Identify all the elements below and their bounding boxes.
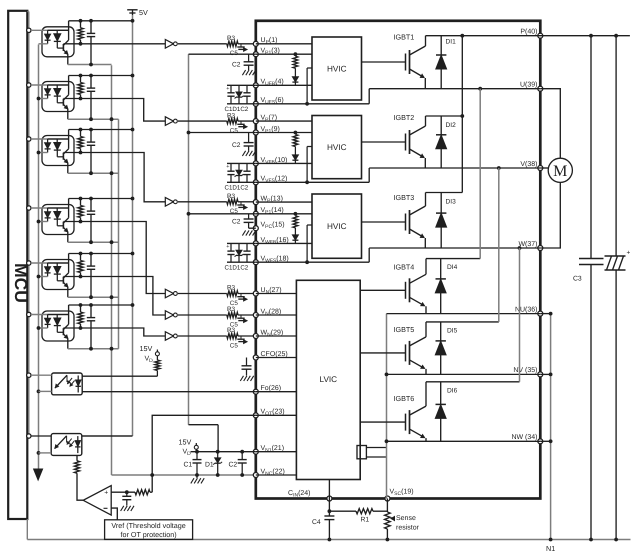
svg-text:C4: C4 <box>312 519 321 526</box>
optocoupler PC7 <box>52 373 83 395</box>
wire P input line <box>256 120 312 122</box>
ground <box>191 478 194 483</box>
wire LVIC pin line <box>256 293 297 295</box>
pin VNC(22) <box>253 473 258 478</box>
capacitor C2 bootstrap <box>246 243 248 251</box>
capacitor decouple opto2 <box>90 76 92 89</box>
pin VP1(9) <box>253 130 258 135</box>
svg-text:W(37): W(37) <box>518 240 537 248</box>
wire MCU aux vertical <box>27 11 29 13</box>
resistor sense shunt <box>386 499 388 513</box>
resistor comparator input <box>135 490 150 495</box>
pin VP(7) <box>253 119 258 124</box>
pin VOT(23) <box>253 413 258 418</box>
pin NV (35) <box>538 372 543 377</box>
wire VFB line <box>256 84 312 86</box>
5V rail vertical <box>132 15 134 436</box>
svg-text:5V: 5V <box>139 8 148 17</box>
supply 15V VD (control) <box>195 443 197 445</box>
wire opto2 emitter return <box>68 118 119 120</box>
resistor pull-up opto2 <box>80 76 82 83</box>
wire gate line <box>362 61 406 63</box>
resistor pull-up opto5 <box>80 254 82 261</box>
capacitor decouple opto3 <box>90 130 92 143</box>
wire gate line <box>362 141 406 143</box>
optocoupler PC3 <box>42 136 74 166</box>
resistor R3 <box>178 314 227 316</box>
pin VP1(3) <box>253 52 258 57</box>
wire VP1 line <box>256 132 312 134</box>
wire W line <box>369 247 540 249</box>
svg-text:D1: D1 <box>205 462 214 469</box>
svg-text:U(39): U(39) <box>520 81 538 89</box>
capacitor C5 <box>240 294 242 297</box>
wire N line <box>387 373 541 375</box>
pin VWFS(18) <box>253 260 258 265</box>
svg-text:IGBT3: IGBT3 <box>394 193 415 202</box>
pin VWFB(16) <box>253 241 258 246</box>
svg-text:R3: R3 <box>227 112 236 119</box>
svg-text:R1: R1 <box>361 517 370 524</box>
optocoupler PC3 input circle <box>27 137 31 141</box>
resistor pull-up opto1 <box>80 21 82 28</box>
wire LVIC pin line <box>256 314 297 316</box>
svg-text:15V: 15V <box>179 438 192 447</box>
resistor opto8 output <box>76 455 78 461</box>
capacitor decouple opto1 <box>90 21 92 34</box>
svg-text:resistor: resistor <box>396 524 420 532</box>
wire CIN riser <box>328 480 330 499</box>
svg-text:IGBT5: IGBT5 <box>394 325 415 334</box>
wire VFS line <box>256 181 369 183</box>
wire comparator plus input <box>111 491 135 493</box>
zener D1 bootstrap <box>238 85 240 92</box>
wire LVIC pin line <box>256 414 297 416</box>
wire VFS line <box>256 261 369 263</box>
optocoupler PC2 <box>42 82 74 112</box>
svg-text:for OT protection): for OT protection) <box>120 530 176 539</box>
capacitor C2 bootstrap <box>246 85 248 93</box>
buffer U4 <box>165 289 173 298</box>
wire comparator minus input <box>111 508 117 520</box>
pin P(40) <box>538 33 543 38</box>
capacitor C1 bootstrap <box>230 85 232 93</box>
buffer U5 <box>165 311 173 320</box>
ground <box>196 475 198 478</box>
buffer U3 <box>165 198 173 207</box>
optocoupler PC1 input circle <box>27 28 31 32</box>
svg-text:CFO(25): CFO(25) <box>261 350 288 358</box>
wire LVIC pin line <box>256 451 297 453</box>
resistor pull-up opto3 <box>80 130 82 137</box>
svg-text:V(38): V(38) <box>520 160 537 168</box>
capacitor CFO timing <box>246 358 248 366</box>
resistor Fo pull-up <box>156 356 158 360</box>
wire NU/NV/NW common vertical <box>550 314 552 540</box>
wire P input line <box>256 201 312 203</box>
wire opto4 5V rail <box>69 198 133 200</box>
svg-text:HVIC: HVIC <box>327 143 347 152</box>
wire phase feed vertical <box>498 168 500 322</box>
svg-text:DI2: DI2 <box>446 122 457 129</box>
wire LVIC sense loop <box>357 446 366 459</box>
svg-text:C2: C2 <box>229 462 238 469</box>
comparator <box>83 486 111 515</box>
wire VP1 rail taps <box>189 53 256 55</box>
svg-text:+: + <box>226 86 229 92</box>
capacitor C3 bus film <box>590 36 592 259</box>
wire P input line <box>256 43 312 45</box>
svg-text:+: + <box>104 489 108 496</box>
wire VFS line <box>256 103 369 105</box>
capacitor C1 bootstrap <box>230 163 232 171</box>
resistor pull-up opto4 <box>80 199 82 206</box>
capacitor decouple opto4 <box>90 199 92 212</box>
wire opto7 collector (15V pull-up) <box>82 375 157 377</box>
optocoupler PC5 <box>42 260 74 290</box>
zener D1 bootstrap <box>238 243 240 250</box>
wire opto6 emitter return <box>68 348 119 350</box>
svg-text:DI5: DI5 <box>447 327 458 334</box>
wire opto3 5V rail <box>69 129 133 131</box>
resistor + diode bootstrap <box>294 212 298 216</box>
wire LVIC pin line <box>256 391 297 393</box>
ground <box>240 376 243 381</box>
wire bootstrap rails <box>227 242 256 244</box>
wire opto3 emitter return <box>68 172 119 174</box>
wire P line <box>426 35 630 37</box>
svg-text:C1: C1 <box>184 462 193 469</box>
capacitor comparator filter <box>126 492 128 496</box>
wire V_OT to comparator <box>152 415 256 492</box>
capacitor C5 <box>240 202 242 205</box>
wire phase feed vertical <box>479 89 481 259</box>
capacitor C5 <box>240 121 242 124</box>
node N1 bottom rail <box>27 539 630 541</box>
wire V line <box>369 167 540 169</box>
pin NU(36) <box>538 311 543 316</box>
wire opto output jog <box>81 328 166 336</box>
svg-text:R3: R3 <box>227 35 236 42</box>
pin VUFB(4) <box>253 83 258 88</box>
capacitor C3 bus electrolytic <box>615 36 617 256</box>
resistor R3 <box>178 43 227 45</box>
svg-text:DI3: DI3 <box>446 199 457 206</box>
wire V to motor <box>540 167 548 169</box>
optocoupler PC4 <box>42 205 74 235</box>
optocoupler PC6 <box>42 311 74 341</box>
capacitor C5 <box>240 336 242 339</box>
resistor pull-up opto6 <box>80 305 82 312</box>
pin VPC(15) <box>253 226 258 231</box>
wire VP1 line <box>256 53 312 55</box>
svg-text:DI1: DI1 <box>446 39 457 46</box>
pin VUFS(6) <box>253 101 258 106</box>
svg-text:IGBT4: IGBT4 <box>394 262 415 271</box>
capacitor decouple opto6 <box>90 305 92 318</box>
pin W(37) <box>538 246 543 251</box>
zener D1 bootstrap <box>238 163 240 170</box>
supply 15V VD (Fo pull-up) <box>156 350 158 352</box>
svg-text:M: M <box>553 163 567 180</box>
pin CIN(24) <box>327 496 332 501</box>
capacitor C2 <box>241 452 243 460</box>
ground return vertical B <box>118 119 120 349</box>
wire opto6 output <box>63 327 80 329</box>
optocoupler PC2 input circle <box>27 83 31 87</box>
wire opto1 5V rail <box>69 20 133 22</box>
IC HVIC driver (IGBT2 section) <box>312 116 362 179</box>
V_P1 15V rail vertical <box>188 54 190 425</box>
pin CFO(25) <box>253 355 258 360</box>
ground <box>121 506 124 511</box>
pin U(39) <box>538 86 543 91</box>
wire N line <box>387 313 541 315</box>
pin VSC(19) <box>385 496 390 501</box>
5V supply symbol <box>132 10 134 16</box>
capacitor C2 control supply <box>248 54 250 62</box>
arrow down (common return) <box>34 469 43 480</box>
wire W to motor <box>540 182 560 248</box>
wire HVIC aux <box>307 224 312 226</box>
svg-text:NV (35): NV (35) <box>513 366 537 374</box>
svg-text:LVIC: LVIC <box>320 375 338 384</box>
optocoupler PC6 input circle <box>27 312 31 316</box>
optocoupler PC7 input circle <box>27 373 31 377</box>
wire LVIC pin line <box>256 335 297 337</box>
wire HVIC aux <box>307 146 312 148</box>
wire opto1 emitter return <box>68 64 112 66</box>
wire opto1 output <box>63 43 80 45</box>
wire P feed vertical <box>461 36 463 193</box>
capacitor C2 control supply <box>248 133 250 143</box>
svg-text:IGBT6: IGBT6 <box>394 394 415 403</box>
capacitor C4 <box>328 499 330 517</box>
wire opto3 output <box>63 152 80 154</box>
svg-text:HVIC: HVIC <box>327 65 347 74</box>
svg-text:C5: C5 <box>230 342 239 349</box>
wire LVIC pin line <box>256 474 297 476</box>
pin V(38) <box>538 166 543 171</box>
svg-text:R3: R3 <box>227 327 236 334</box>
buffer U6 <box>165 332 173 341</box>
pin VN1(21) <box>253 449 258 454</box>
svg-text:C2: C2 <box>232 61 241 68</box>
wire opto4 output <box>63 221 80 223</box>
resistor R3 <box>178 335 227 337</box>
svg-text:DI4: DI4 <box>447 264 458 271</box>
svg-text:C1D1C2: C1D1C2 <box>225 264 249 271</box>
svg-text:C2: C2 <box>232 218 241 225</box>
capacitor C5 <box>240 315 242 318</box>
wire gate line <box>362 221 406 223</box>
wire VFB line <box>256 242 312 244</box>
zener D1 <box>217 452 219 458</box>
resistor R1 <box>329 510 356 512</box>
wire phase feed vertical <box>519 248 521 382</box>
svg-text:DI6: DI6 <box>447 387 458 394</box>
IC HVIC driver (IGBT1 section) <box>312 37 362 100</box>
ground <box>242 230 245 235</box>
wire VN1 line <box>191 451 256 453</box>
svg-text:+: + <box>627 250 631 257</box>
capacitor decouple opto5 <box>90 254 92 267</box>
motor M <box>548 158 572 182</box>
pin VP1(14) <box>253 211 258 216</box>
wire opto5 output <box>63 276 80 278</box>
capacitor C2 bootstrap <box>246 163 248 171</box>
wire opto5 5V rail <box>69 253 133 255</box>
Vref box <box>105 520 193 540</box>
svg-text:P(40): P(40) <box>520 28 537 36</box>
svg-text:R3: R3 <box>227 285 236 292</box>
svg-text:C5: C5 <box>230 127 239 134</box>
ground return vertical A <box>111 65 113 475</box>
wire opto output jog <box>81 99 166 122</box>
optocoupler PC1 <box>42 27 74 57</box>
wire U line <box>369 88 540 90</box>
pin WP(13) <box>253 200 258 205</box>
wire opto1 output to buffer <box>81 43 166 45</box>
wire gate line <box>360 289 405 291</box>
svg-text:+: + <box>226 164 229 170</box>
wire VP1 line <box>256 213 312 215</box>
svg-text:C3: C3 <box>573 276 582 283</box>
svg-text:C1D1C2: C1D1C2 <box>225 106 249 113</box>
wire bootstrap rails <box>227 84 256 86</box>
svg-text:R3: R3 <box>227 306 236 313</box>
wire gate line <box>360 352 405 354</box>
pin UP(1) <box>253 41 258 46</box>
ground line to V_NC <box>112 474 256 476</box>
svg-text:Sense: Sense <box>396 515 416 522</box>
svg-text:IGBT2: IGBT2 <box>394 113 415 122</box>
wire LED return vertical <box>38 45 40 470</box>
ground <box>242 151 245 156</box>
wire opto4 emitter return <box>68 241 119 243</box>
wire bootstrap rails <box>227 162 256 164</box>
IC LVIC driver <box>296 280 360 479</box>
capacitor C2 control supply (W section, to VPC) <box>248 214 250 219</box>
pin UN(27) <box>253 291 258 296</box>
pin Fo(26) <box>253 389 258 394</box>
wire IGBT3 collector rail <box>426 192 463 194</box>
svg-text:Fo(26): Fo(26) <box>261 384 282 392</box>
wire sense vertical <box>386 314 388 499</box>
pin VN(28) <box>253 313 258 318</box>
svg-text:C2: C2 <box>232 142 241 149</box>
IC HVIC driver (IGBT3 section) <box>312 194 362 258</box>
wire opto output jog <box>81 277 166 316</box>
resistor R3 <box>178 293 227 295</box>
pin VVFS(12) <box>253 180 258 185</box>
wire Fo line <box>82 391 256 393</box>
wire opto output jog <box>81 153 166 202</box>
wire N line <box>387 440 541 442</box>
buffer U2 <box>165 117 173 126</box>
wire LVIC pin line <box>256 357 297 359</box>
svg-text:Vref (Threshold voltage: Vref (Threshold voltage <box>111 521 185 530</box>
optocoupler PC5 input circle <box>27 261 31 265</box>
pin VVFB(10) <box>253 161 258 166</box>
MCU block <box>8 11 27 519</box>
resistor + diode bootstrap <box>294 131 298 135</box>
svg-text:N1: N1 <box>546 544 555 553</box>
wire opto6 5V rail <box>69 304 133 306</box>
svg-text:C1D1C2: C1D1C2 <box>225 185 249 192</box>
svg-text:R3: R3 <box>227 193 236 200</box>
optocoupler PC8 <box>51 434 82 456</box>
pin WN(29) <box>253 334 258 339</box>
buffer U1 <box>165 40 173 49</box>
wire gate line <box>360 421 405 423</box>
wire IGBT2 collector rail <box>426 115 463 117</box>
optocoupler PC8 input circle <box>27 434 31 438</box>
pin NW (34) <box>538 439 543 444</box>
optocoupler PC4 input circle <box>27 206 31 210</box>
capacitor C1 <box>196 452 198 460</box>
wire HVIC aux <box>307 67 312 69</box>
wire opto2 5V rail <box>69 75 133 77</box>
wire opto2 output <box>63 98 80 100</box>
resistor R3 <box>178 201 227 203</box>
wire opto5 emitter return <box>68 296 119 298</box>
resistor R3 <box>178 120 227 122</box>
resistor + diode bootstrap <box>294 52 298 56</box>
svg-text:IGBT1: IGBT1 <box>394 33 415 42</box>
wire VFB line <box>256 162 312 164</box>
svg-text:HVIC: HVIC <box>327 222 347 231</box>
wire opto output jog <box>81 222 166 294</box>
ground <box>242 70 245 75</box>
capacitor C5 <box>240 44 242 47</box>
IPM module outline <box>256 21 541 499</box>
wire U to motor <box>540 89 560 159</box>
svg-text:+: + <box>226 244 229 250</box>
svg-text:15V: 15V <box>140 344 153 353</box>
wire opto8 collector to rail <box>82 435 133 437</box>
capacitor C1 bootstrap <box>230 243 232 251</box>
svg-text:NU(36): NU(36) <box>515 305 538 313</box>
svg-text:NW (34): NW (34) <box>511 433 537 441</box>
